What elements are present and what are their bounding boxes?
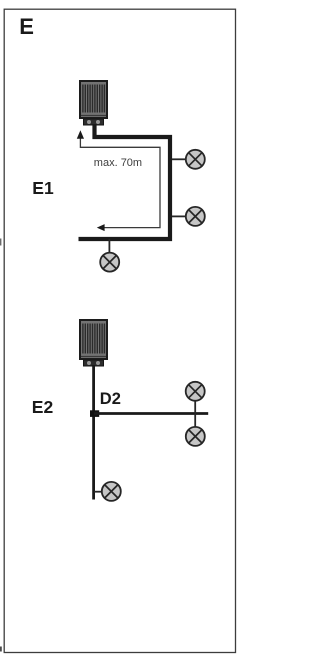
lamp L1 xyxy=(186,150,205,169)
svg-text:E: E xyxy=(19,14,34,39)
wire stub lamp L2 xyxy=(172,215,186,217)
wire stub lamp L3 xyxy=(108,239,110,252)
arrow up xyxy=(77,130,84,139)
border frame xyxy=(4,9,235,652)
lamp L5 xyxy=(186,427,205,446)
svg-text:E1: E1 xyxy=(32,178,54,198)
scan mark left edge xyxy=(0,239,1,246)
wire vertical main xyxy=(92,365,95,500)
wire stub lamp L1 xyxy=(172,158,186,160)
driver U1 (transformer box) xyxy=(80,81,107,125)
wire stub lamp L6 xyxy=(94,491,102,493)
lamp L6 xyxy=(102,482,121,501)
arrow left xyxy=(97,224,105,231)
wire horizontal branch xyxy=(94,412,208,415)
svg-text:max. 70m: max. 70m xyxy=(94,157,142,169)
lamp L2 xyxy=(186,207,205,226)
wire: thick loop from driver xyxy=(79,124,171,239)
driver U2 (transformer box) xyxy=(80,320,107,366)
wire stub lamp L5 xyxy=(194,414,196,428)
junction D2 node xyxy=(90,410,99,417)
svg-text:D2: D2 xyxy=(100,390,121,408)
wire stub lamp L4 xyxy=(194,401,196,414)
wire: thin measurement path with arrows xyxy=(80,138,160,228)
lamp L4 xyxy=(186,382,205,401)
scan mark bottom left xyxy=(0,647,2,652)
svg-text:E2: E2 xyxy=(32,397,54,417)
lamp L3 xyxy=(100,253,119,272)
